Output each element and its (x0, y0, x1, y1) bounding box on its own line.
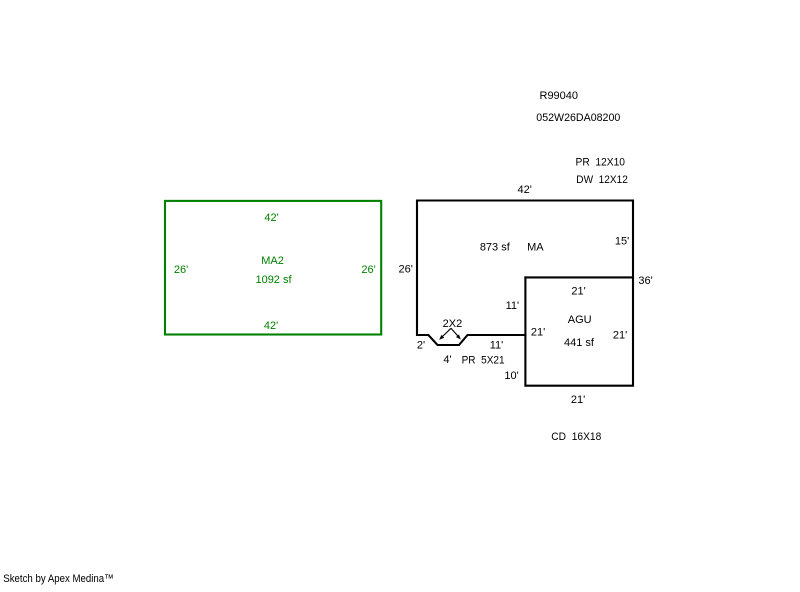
svg-text:42': 42' (518, 184, 532, 196)
svg-text:873 sf: 873 sf (480, 242, 511, 254)
svg-text:42': 42' (264, 212, 278, 224)
svg-text:441 sf: 441 sf (564, 337, 595, 349)
svg-text:10': 10' (504, 370, 518, 382)
svg-text:AGU: AGU (568, 314, 592, 326)
AGU left upper edge (524, 276, 526, 336)
svg-text:15': 15' (615, 236, 629, 248)
svg-text:36': 36' (638, 275, 652, 287)
svg-text:PR 5X21: PR 5X21 (462, 355, 505, 367)
svg-text:MA2: MA2 (261, 255, 284, 267)
svg-text:2X2: 2X2 (443, 318, 463, 330)
MA2 outline (green rectangle) (165, 201, 381, 335)
MA building outer boundary with porch notch (417, 201, 633, 386)
svg-text:1092 sf: 1092 sf (255, 274, 292, 286)
svg-text:R99040: R99040 (540, 90, 579, 102)
svg-text:052W26DA08200: 052W26DA08200 (536, 112, 620, 124)
2X2 callout right arrow (451, 328, 458, 336)
svg-text:26': 26' (399, 264, 413, 276)
svg-text:DW 12X12: DW 12X12 (576, 174, 628, 186)
svg-text:11': 11' (490, 340, 504, 352)
2X2 callout left arrow (442, 328, 451, 337)
svg-text:PR 12X10: PR 12X10 (576, 156, 626, 168)
svg-text:26': 26' (361, 264, 375, 276)
svg-text:42': 42' (264, 320, 278, 332)
svg-text:4': 4' (443, 354, 451, 366)
AGU top edge (524, 276, 634, 278)
svg-text:MA: MA (527, 242, 544, 254)
svg-text:26': 26' (174, 264, 188, 276)
svg-text:21': 21' (571, 394, 585, 406)
svg-text:21': 21' (613, 330, 627, 342)
svg-text:Sketch by Apex Medina™: Sketch by Apex Medina™ (3, 573, 114, 585)
svg-text:CD 16X18: CD 16X18 (551, 431, 601, 443)
svg-text:21': 21' (531, 327, 545, 339)
svg-text:11': 11' (506, 300, 520, 312)
svg-text:21': 21' (571, 286, 585, 298)
svg-text:2': 2' (417, 340, 425, 352)
